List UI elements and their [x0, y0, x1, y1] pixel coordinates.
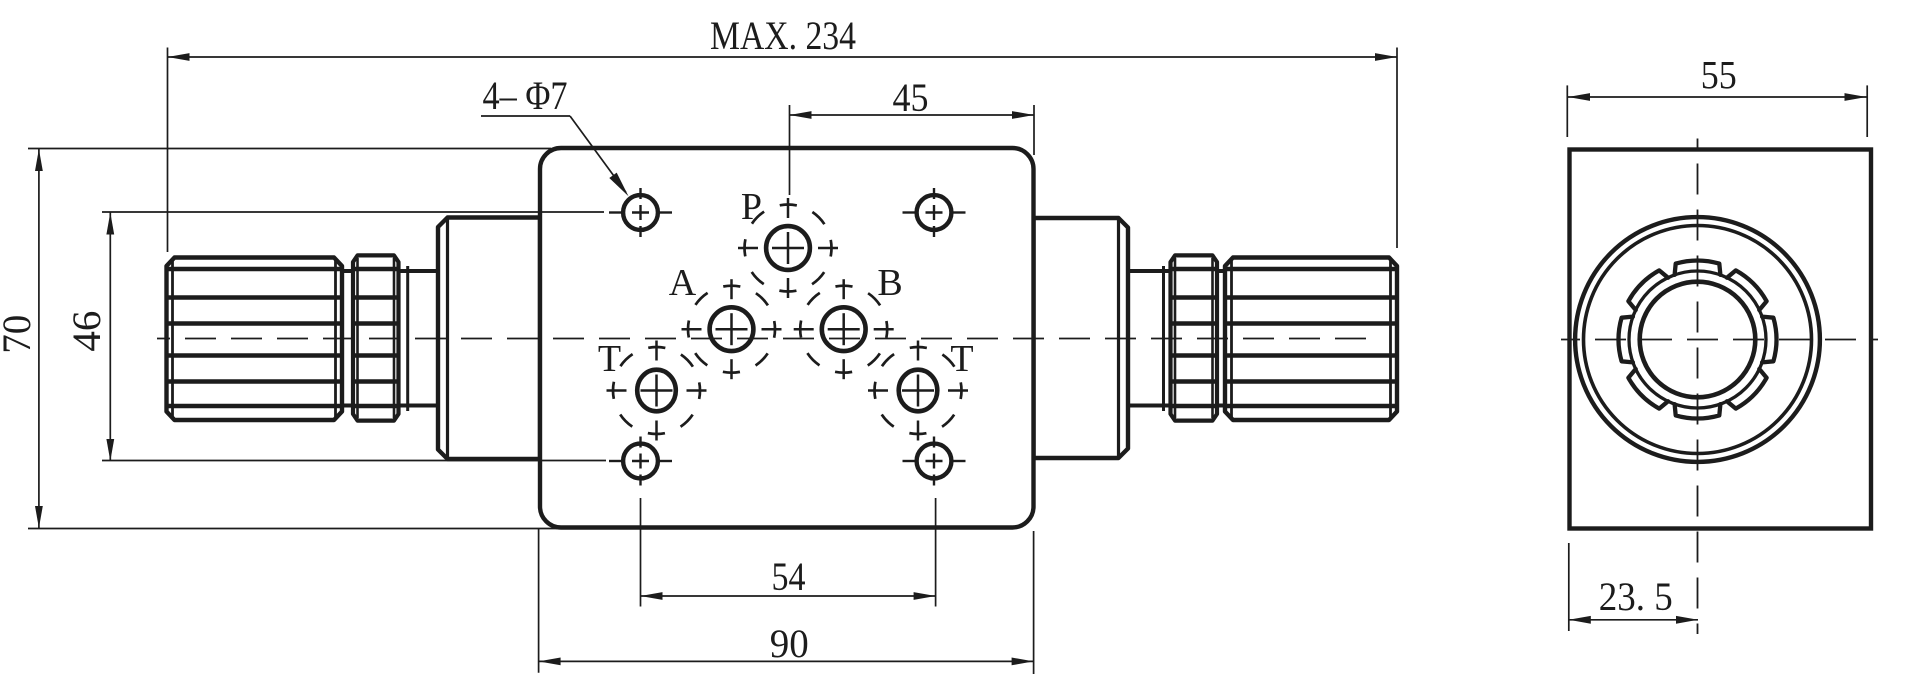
svg-text:B: B — [877, 262, 902, 304]
mounting hole bottom-left — [623, 444, 658, 479]
port P — [766, 226, 810, 270]
left hand knob (knurled) — [167, 258, 343, 421]
dimension MAX.234 line — [168, 56, 1398, 58]
dimension 90 extension line right — [1033, 531, 1035, 674]
dimension 55 line — [1568, 96, 1867, 98]
svg-text:90: 90 — [770, 621, 809, 666]
svg-text:P: P — [741, 186, 762, 228]
dimension 46 extension line bottom — [102, 460, 606, 462]
side view knurl tabs (8 lobes) — [1619, 261, 1777, 419]
svg-text:70: 70 — [0, 315, 39, 354]
dimension 70 extension line top — [28, 148, 551, 150]
dimension 70 extension line bottom — [28, 528, 560, 530]
dimension 23.5 extension line left — [1568, 543, 1570, 631]
left stem cylinder — [342, 269, 438, 273]
dimension 46 extension line top — [102, 211, 604, 213]
right stem cylinder — [1128, 269, 1225, 273]
svg-text:45: 45 — [893, 75, 929, 120]
dimension 23.5 line — [1569, 619, 1698, 621]
dimension 70 line — [38, 149, 40, 528]
right hand knob (knurled) — [1225, 258, 1397, 421]
dimension 90 line — [539, 660, 1034, 662]
mounting hole bottom-right — [917, 444, 952, 479]
left knurled ring — [353, 255, 399, 420]
port T right — [899, 370, 938, 412]
side view inner rim circle — [1584, 226, 1812, 454]
svg-text:55: 55 — [1701, 53, 1737, 98]
valve body plate (front view) — [540, 148, 1034, 528]
left mounting flange — [438, 218, 540, 460]
svg-text:T: T — [950, 338, 973, 380]
dimension 45 extension line right — [1033, 105, 1035, 155]
side view body outline — [1570, 150, 1872, 529]
dimension MAX.234 extension line left — [167, 48, 169, 253]
dimension MAX.234 extension line right — [1396, 48, 1398, 249]
side view horizontal centerline — [1561, 339, 1878, 341]
dimension 45 line — [790, 114, 1035, 116]
svg-text:23. 5: 23. 5 — [1599, 574, 1673, 619]
side view knob bore circle — [1640, 282, 1756, 398]
side view vertical centerline — [1697, 139, 1699, 635]
svg-text:MAX. 234: MAX. 234 — [710, 13, 856, 58]
right knurled ring — [1171, 255, 1218, 420]
dimension 54 line — [641, 595, 936, 597]
dimension 55 extension line right — [1866, 85, 1868, 137]
svg-text:54: 54 — [772, 554, 806, 599]
side view knurl base circle — [1629, 271, 1766, 408]
horizontal centerline (main view) — [157, 338, 1374, 340]
svg-text:46: 46 — [64, 311, 109, 352]
dimension 45 extension line left — [789, 105, 791, 195]
svg-text:T: T — [598, 338, 621, 380]
dimension 46 line — [109, 213, 111, 462]
dimension 55 extension line left — [1566, 85, 1568, 137]
svg-text:A: A — [669, 262, 697, 304]
dimension 90 extension line left — [538, 529, 540, 673]
dimension 54 extension line left — [640, 498, 642, 607]
side view outer circle — [1575, 217, 1820, 462]
right mounting flange — [1034, 218, 1129, 458]
dimension 54 extension line right — [935, 498, 937, 607]
port B — [822, 307, 866, 351]
port A — [710, 307, 754, 351]
mounting hole top-right — [917, 195, 952, 230]
port T left — [637, 370, 676, 412]
svg-text:4– Φ7: 4– Φ7 — [483, 73, 568, 118]
mounting hole top-left — [623, 195, 658, 230]
